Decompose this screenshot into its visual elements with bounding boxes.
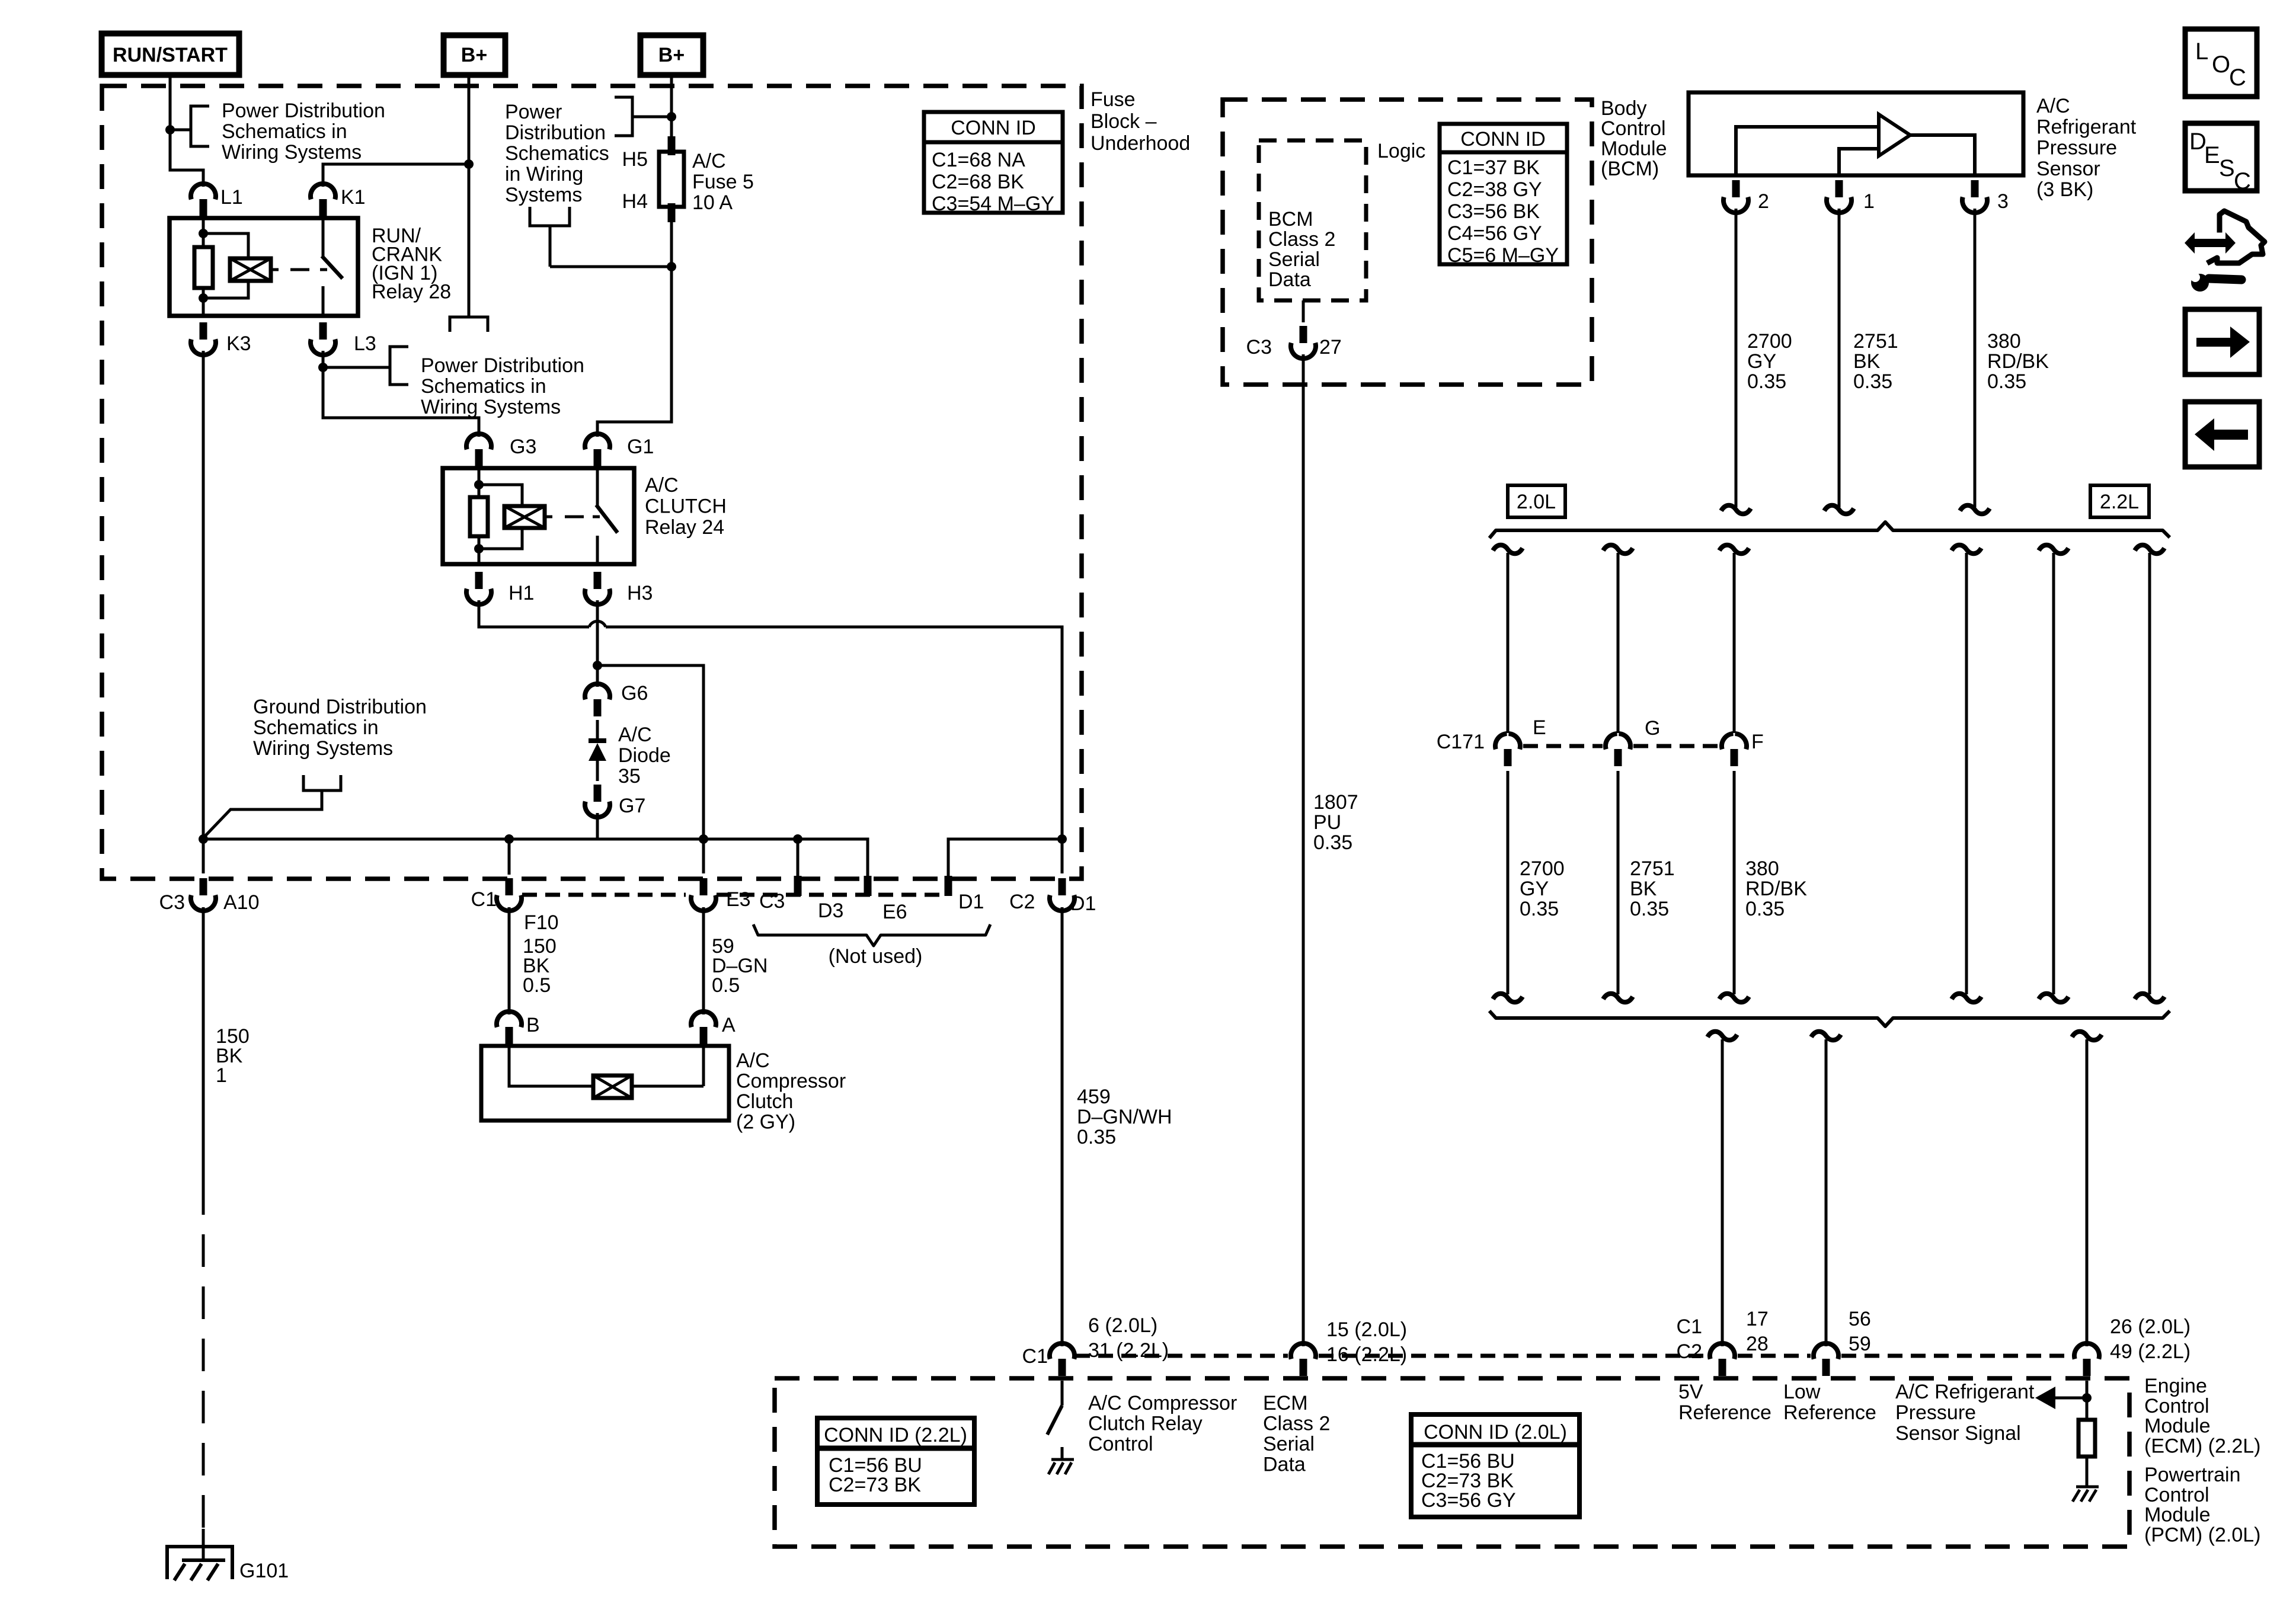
svg-text:2751: 2751 (1853, 330, 1898, 353)
svg-text:59: 59 (1849, 1333, 1871, 1355)
svg-text:C1: C1 (1677, 1315, 1702, 1338)
svg-text:0.35: 0.35 (1745, 898, 1785, 920)
svg-text:A/C: A/C (618, 724, 652, 746)
svg-text:Fuse: Fuse (1091, 88, 1136, 111)
svg-text:2700: 2700 (1520, 857, 1565, 880)
svg-text:C: C (2229, 65, 2246, 91)
svg-text:C2: C2 (1677, 1340, 1702, 1363)
svg-text:A/C: A/C (2036, 95, 2070, 117)
svg-text:Relay 28: Relay 28 (372, 281, 451, 303)
svg-text:C2=68 BK: C2=68 BK (932, 171, 1024, 193)
svg-text:K3: K3 (226, 332, 251, 355)
svg-text:C171: C171 (1437, 731, 1485, 753)
svg-text:Reference: Reference (1678, 1401, 1771, 1424)
svg-text:H4: H4 (622, 190, 648, 213)
svg-text:16 (2.2L): 16 (2.2L) (1326, 1343, 1407, 1366)
svg-text:Low: Low (1783, 1381, 1821, 1403)
svg-text:C5=6 M–GY: C5=6 M–GY (1447, 244, 1559, 267)
svg-text:Class 2: Class 2 (1263, 1413, 1330, 1435)
svg-text:0.35: 0.35 (1313, 831, 1352, 854)
svg-text:Control: Control (1601, 117, 1666, 140)
svg-text:Module: Module (2144, 1415, 2211, 1438)
svg-text:H5: H5 (622, 148, 648, 171)
svg-text:5V: 5V (1678, 1381, 1703, 1403)
svg-text:Sensor: Sensor (2036, 158, 2100, 180)
svg-text:Logic: Logic (1377, 140, 1425, 162)
svg-text:Module: Module (2144, 1504, 2211, 1526)
svg-text:CONN ID: CONN ID (1460, 128, 1546, 151)
svg-text:15 (2.0L): 15 (2.0L) (1326, 1318, 1407, 1341)
svg-text:Compressor: Compressor (736, 1070, 846, 1093)
svg-text:D–GN/WH: D–GN/WH (1077, 1106, 1172, 1128)
svg-text:D1: D1 (1070, 892, 1096, 915)
svg-text:Pressure: Pressure (1895, 1401, 1976, 1424)
svg-text:(ECM) (2.2L): (ECM) (2.2L) (2144, 1435, 2260, 1457)
svg-text:0.35: 0.35 (1077, 1126, 1116, 1148)
svg-text:C1: C1 (1022, 1345, 1048, 1368)
svg-text:Serial: Serial (1263, 1433, 1315, 1455)
svg-text:A/C: A/C (692, 150, 726, 172)
svg-text:RD/BK: RD/BK (1987, 350, 2049, 373)
svg-text:Schematics in: Schematics in (421, 375, 546, 398)
svg-text:F: F (1751, 731, 1764, 753)
svg-text:Power: Power (505, 101, 562, 123)
svg-text:F10: F10 (524, 911, 559, 934)
svg-text:B+: B+ (658, 44, 685, 66)
svg-text:H3: H3 (627, 582, 653, 604)
svg-text:(PCM) (2.0L): (PCM) (2.0L) (2144, 1523, 2260, 1546)
svg-text:0.5: 0.5 (523, 974, 551, 997)
svg-text:17: 17 (1746, 1308, 1769, 1330)
svg-text:Data: Data (1263, 1454, 1306, 1476)
svg-text:0.35: 0.35 (1987, 370, 2026, 393)
svg-text:A/C Refrigerant: A/C Refrigerant (1895, 1381, 2035, 1403)
svg-text:1807: 1807 (1313, 791, 1358, 814)
svg-text:(3 BK): (3 BK) (2036, 178, 2093, 201)
svg-text:E6: E6 (882, 901, 907, 923)
svg-text:Data: Data (1268, 268, 1311, 291)
svg-text:C1=37 BK: C1=37 BK (1447, 156, 1540, 179)
svg-text:L: L (2195, 39, 2208, 65)
svg-text:Engine: Engine (2144, 1375, 2207, 1397)
svg-text:Schematics in: Schematics in (253, 716, 379, 739)
svg-text:C3=56 GY: C3=56 GY (1421, 1489, 1516, 1512)
svg-text:C3: C3 (159, 891, 185, 914)
svg-text:Reference: Reference (1783, 1401, 1876, 1424)
svg-text:Power Distribution: Power Distribution (421, 354, 584, 377)
svg-text:B+: B+ (461, 44, 487, 66)
svg-text:C: C (2234, 168, 2251, 194)
svg-text:BCM: BCM (1268, 208, 1313, 231)
svg-text:56: 56 (1849, 1308, 1871, 1330)
svg-text:C4=56 GY: C4=56 GY (1447, 222, 1542, 245)
svg-text:G6: G6 (621, 682, 648, 705)
svg-text:A: A (722, 1014, 736, 1036)
svg-text:D3: D3 (818, 900, 843, 922)
svg-text:Serial: Serial (1268, 248, 1320, 271)
svg-text:26 (2.0L): 26 (2.0L) (2110, 1315, 2191, 1338)
svg-text:0.35: 0.35 (1853, 370, 1892, 393)
svg-text:Relay 24: Relay 24 (645, 516, 724, 539)
svg-text:Control: Control (2144, 1395, 2209, 1417)
svg-text:Module: Module (1601, 137, 1667, 160)
svg-text:L3: L3 (354, 332, 376, 355)
svg-text:G1: G1 (627, 436, 654, 458)
svg-text:0.35: 0.35 (1747, 370, 1786, 393)
svg-text:Powertrain: Powertrain (2144, 1464, 2241, 1486)
svg-text:(2 GY): (2 GY) (736, 1111, 795, 1134)
svg-text:A/C Compressor: A/C Compressor (1088, 1392, 1237, 1414)
svg-text:GY: GY (1747, 350, 1776, 373)
svg-text:Ground Distribution: Ground Distribution (253, 696, 427, 718)
svg-text:Wiring Systems: Wiring Systems (253, 737, 393, 760)
svg-text:35: 35 (618, 765, 641, 788)
svg-text:C3=54 M–GY: C3=54 M–GY (932, 193, 1054, 215)
svg-text:C2=38 GY: C2=38 GY (1447, 178, 1542, 201)
svg-text:Pressure: Pressure (2036, 137, 2117, 159)
svg-text:380: 380 (1987, 330, 2021, 353)
svg-text:Underhood: Underhood (1091, 132, 1190, 155)
svg-text:L1: L1 (220, 186, 243, 209)
svg-text:D1: D1 (958, 891, 984, 913)
svg-text:Sensor Signal: Sensor Signal (1895, 1422, 2021, 1445)
svg-text:2751: 2751 (1630, 857, 1675, 880)
svg-text:G7: G7 (619, 795, 645, 817)
svg-text:S: S (2219, 155, 2235, 181)
svg-text:GY: GY (1520, 878, 1549, 900)
svg-text:Schematics: Schematics (505, 142, 609, 165)
svg-text:C1=68 NA: C1=68 NA (932, 149, 1025, 171)
svg-text:Block –: Block – (1091, 110, 1157, 133)
svg-text:G3: G3 (510, 436, 536, 458)
svg-text:Refrigerant: Refrigerant (2036, 116, 2137, 138)
svg-text:1: 1 (1863, 190, 1875, 213)
svg-text:Control: Control (2144, 1484, 2209, 1506)
svg-text:(Not used): (Not used) (829, 945, 923, 968)
svg-text:BK: BK (1630, 878, 1657, 900)
svg-text:10 A: 10 A (692, 191, 733, 214)
svg-text:1: 1 (216, 1064, 227, 1087)
svg-text:3: 3 (1997, 190, 2009, 213)
svg-text:E: E (1533, 716, 1546, 739)
svg-text:28: 28 (1746, 1333, 1769, 1355)
svg-text:ECM: ECM (1263, 1392, 1308, 1414)
svg-text:Power Distribution: Power Distribution (222, 100, 385, 122)
svg-text:Wiring Systems: Wiring Systems (222, 141, 362, 164)
svg-text:Clutch Relay: Clutch Relay (1088, 1413, 1203, 1435)
svg-text:G: G (1645, 717, 1660, 740)
svg-text:C2=73 BK: C2=73 BK (829, 1474, 921, 1496)
svg-text:O: O (2212, 52, 2230, 78)
svg-text:2.2L: 2.2L (2100, 491, 2139, 513)
svg-text:Wiring Systems: Wiring Systems (421, 396, 561, 418)
svg-text:C3=56 BK: C3=56 BK (1447, 200, 1540, 223)
svg-text:C3: C3 (1246, 336, 1272, 359)
svg-text:0.5: 0.5 (712, 974, 740, 997)
svg-text:31 (2.2L): 31 (2.2L) (1088, 1339, 1169, 1362)
svg-text:H1: H1 (509, 582, 534, 604)
svg-text:CONN ID (2.0L): CONN ID (2.0L) (1424, 1421, 1567, 1443)
svg-text:0.35: 0.35 (1630, 898, 1669, 920)
svg-text:PU: PU (1313, 811, 1341, 834)
svg-text:in Wiring: in Wiring (505, 163, 583, 185)
svg-text:K1: K1 (341, 186, 366, 209)
svg-text:E: E (2204, 142, 2220, 168)
svg-text:Fuse 5: Fuse 5 (692, 171, 754, 193)
svg-text:A10: A10 (223, 891, 260, 914)
svg-text:Class 2: Class 2 (1268, 228, 1335, 251)
svg-text:0.35: 0.35 (1520, 898, 1559, 920)
svg-text:A/C: A/C (645, 474, 679, 497)
svg-text:C1: C1 (471, 888, 497, 911)
svg-text:BK: BK (1853, 350, 1881, 373)
svg-text:C2: C2 (1009, 891, 1035, 913)
svg-text:CLUTCH: CLUTCH (645, 495, 727, 518)
svg-text:Diode: Diode (618, 744, 671, 767)
svg-text:2700: 2700 (1747, 330, 1792, 353)
svg-text:6 (2.0L): 6 (2.0L) (1088, 1314, 1157, 1337)
svg-text:2: 2 (1758, 190, 1769, 213)
svg-text:49 (2.2L): 49 (2.2L) (2110, 1340, 2191, 1363)
svg-text:27: 27 (1319, 336, 1342, 359)
svg-text:2.0L: 2.0L (1517, 491, 1556, 513)
svg-text:(BCM): (BCM) (1601, 158, 1659, 180)
svg-text:Clutch: Clutch (736, 1090, 793, 1113)
svg-text:380: 380 (1745, 857, 1779, 880)
svg-text:Control: Control (1088, 1433, 1153, 1455)
svg-text:Body: Body (1601, 97, 1647, 120)
svg-text:A/C: A/C (736, 1049, 770, 1072)
svg-text:B: B (526, 1014, 540, 1036)
svg-text:RUN/START: RUN/START (113, 44, 228, 66)
svg-text:459: 459 (1077, 1086, 1111, 1108)
svg-text:CONN ID (2.2L): CONN ID (2.2L) (824, 1424, 967, 1446)
svg-text:Distribution: Distribution (505, 121, 606, 144)
svg-text:Schematics in: Schematics in (222, 120, 347, 143)
svg-text:Systems: Systems (505, 184, 582, 206)
svg-text:E3: E3 (726, 888, 751, 911)
svg-text:G101: G101 (239, 1560, 289, 1582)
svg-text:CONN ID: CONN ID (951, 117, 1036, 139)
svg-text:RD/BK: RD/BK (1745, 878, 1807, 900)
